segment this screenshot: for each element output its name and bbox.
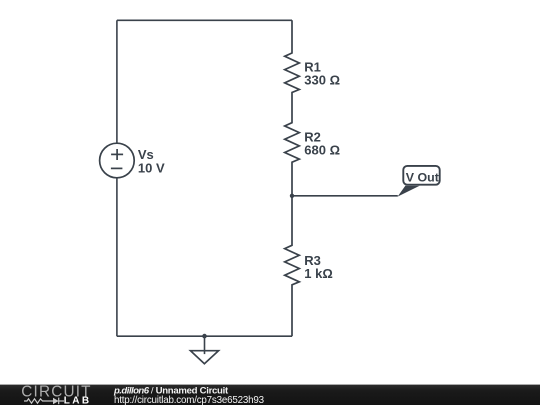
svg-text:1 kΩ: 1 kΩ <box>304 266 333 281</box>
svg-text:10 V: 10 V <box>138 161 165 176</box>
svg-text:680 Ω: 680 Ω <box>304 143 340 158</box>
svg-text:V Out: V Out <box>406 170 439 184</box>
svg-text:http://circuitlab.com/cp7s3e65: http://circuitlab.com/cp7s3e6523h93 <box>114 395 265 405</box>
svg-text:LAB: LAB <box>64 396 92 405</box>
svg-text:330 Ω: 330 Ω <box>304 73 340 88</box>
